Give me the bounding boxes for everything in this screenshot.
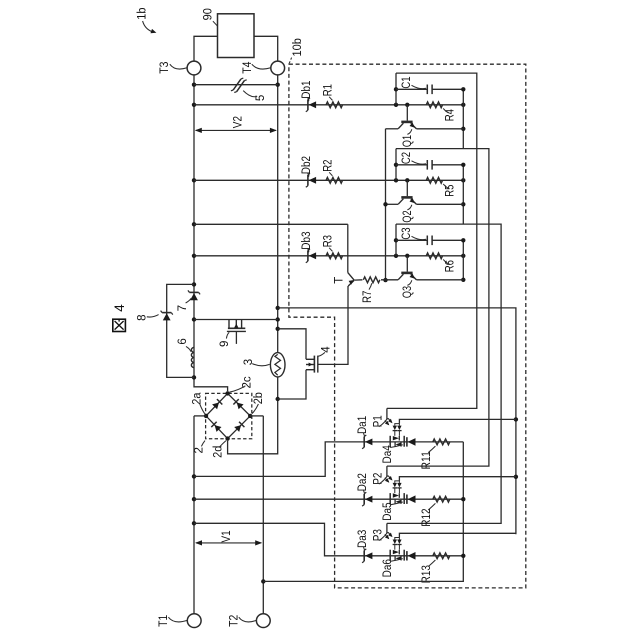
stage 2 wire dots [394, 178, 398, 182]
svg-text:Db3: Db3 [301, 231, 313, 249]
bridge diode 2a-top [212, 403, 219, 410]
wire bridge right corner [250, 415, 263, 417]
emitter wire Q1 [416, 128, 463, 130]
svg-text:Da1: Da1 [357, 416, 369, 434]
svg-text:C3: C3 [401, 227, 413, 239]
P2 return wire [399, 477, 516, 481]
collector rail [385, 129, 387, 280]
capacitor C1 [396, 88, 427, 90]
inductor 6 [191, 347, 194, 367]
node E2 vertical [462, 165, 464, 224]
svg-text:Da6: Da6 [382, 559, 394, 577]
terminal T3 [187, 61, 201, 75]
stage 2 wire [194, 179, 463, 181]
svg-text:P1: P1 [372, 415, 384, 427]
svg-text:T1: T1 [158, 615, 170, 627]
svg-text:R2: R2 [323, 160, 335, 172]
svg-text:2d: 2d [212, 446, 224, 458]
resistor R13 [433, 553, 450, 559]
svg-text:R12: R12 [421, 508, 433, 526]
svg-text:10b: 10b [292, 38, 304, 56]
left rail lower dots [192, 474, 196, 478]
zener D7 on rail [189, 291, 198, 293]
resistor R5 [426, 177, 442, 183]
row 3 wire [194, 523, 463, 556]
P2 light arrows [385, 478, 389, 482]
svg-text:T3: T3 [159, 61, 171, 73]
capacitor C3 [396, 239, 427, 241]
left rail lower [193, 416, 195, 614]
svg-text:P3: P3 [372, 529, 384, 541]
T4 rail junction dots [276, 83, 280, 87]
wire sense line [194, 223, 348, 225]
zener Da1 [363, 437, 365, 448]
svg-text:90: 90 [203, 8, 215, 20]
svg-text:Db2: Db2 [301, 156, 313, 174]
left rail junction dots [192, 83, 196, 87]
P3 return wire [399, 533, 516, 537]
arrow for 1b [143, 21, 153, 32]
stage 3 wire dots [394, 254, 398, 258]
P3 gate drop [386, 523, 388, 533]
svg-text:1b: 1b [137, 8, 149, 20]
PTC 3 [270, 353, 285, 377]
V2 dimension arrow [196, 129, 276, 131]
resistor R7 [363, 277, 380, 283]
FET9 wire [194, 319, 278, 321]
svg-text:Da3: Da3 [357, 530, 369, 548]
T4 rail down to bridge bottom [228, 75, 278, 454]
svg-text:R13: R13 [421, 565, 433, 583]
resistor R3 [326, 253, 343, 259]
riser from T4 wire [278, 308, 516, 534]
svg-text:4: 4 [112, 304, 127, 312]
svg-text:V1: V1 [221, 530, 233, 542]
T2 rail [262, 416, 264, 614]
device T [347, 224, 349, 272]
svg-text:R4: R4 [445, 109, 457, 122]
resistor R4 [426, 102, 442, 108]
charger box 90 [218, 14, 255, 58]
zener Db2 [307, 175, 309, 186]
diode Da5 [406, 495, 408, 504]
V1 dimension arrow [196, 542, 261, 544]
bridge corner dots [225, 391, 229, 395]
terminal T1 [187, 614, 201, 628]
svg-text:Db1: Db1 [301, 80, 313, 98]
stage 3 wire [194, 255, 463, 257]
zener Db3 [307, 250, 309, 261]
transistor Q3 [406, 256, 408, 272]
svg-text:C1: C1 [401, 76, 413, 88]
svg-text:C2: C2 [401, 152, 413, 164]
resistor R6 [426, 253, 442, 259]
svg-text:R7: R7 [362, 291, 374, 303]
transistor Q2 [406, 180, 408, 196]
svg-text:Q3: Q3 [402, 286, 414, 298]
FET 9 [228, 320, 230, 329]
stage 1 wire [194, 104, 463, 106]
wire bridge left corner [194, 415, 206, 417]
svg-text:T2: T2 [228, 615, 240, 627]
FET4 gate wire [318, 286, 348, 364]
riser dots [514, 417, 518, 421]
P3 light arrows [385, 534, 389, 538]
node B3 cell-top wire [387, 224, 501, 523]
opto-coupler P2 [389, 493, 391, 504]
resistor R12 [433, 496, 450, 502]
collector wire Q1 [386, 128, 399, 130]
bridge diode bottom-right [234, 425, 241, 432]
figure label ZU4 [113, 319, 126, 331]
svg-text:P2: P2 [372, 473, 384, 485]
opto-coupler P1 [389, 436, 391, 447]
P1 gate drop [386, 408, 388, 419]
row 1 wire [194, 442, 463, 477]
wire with element 5 [194, 84, 278, 86]
resistor R1 [326, 102, 343, 108]
cell 3 left wire [395, 224, 397, 256]
bridge diode top-right [237, 403, 244, 410]
svg-text:R1: R1 [323, 84, 335, 96]
transistor Q1 [406, 105, 408, 121]
bridge diamond [206, 393, 250, 438]
svg-text:2a: 2a [191, 392, 203, 405]
left rail T3 to bridge top [194, 75, 228, 391]
branch with zener 8 [167, 284, 194, 377]
wire box to T3 [194, 36, 218, 61]
diode Da6 [406, 551, 408, 560]
zener Da3 [363, 550, 365, 561]
svg-text:R11: R11 [421, 451, 433, 469]
P1 light arrows [385, 421, 389, 425]
collector wire Q2 [386, 203, 399, 205]
stage 1 wire dots [394, 103, 398, 107]
zener Db1 [307, 99, 309, 110]
svg-text:Q1: Q1 [402, 135, 414, 147]
zener D8 [162, 312, 171, 314]
P2 gate drop [386, 466, 388, 477]
node B2 cell-top wire [387, 149, 489, 467]
node E3 vertical [462, 240, 464, 279]
emitter wire Q2 [416, 203, 463, 205]
terminal T4 [271, 61, 285, 75]
capacitor C2 [396, 164, 427, 166]
resistor R11 [433, 439, 450, 445]
svg-text:2: 2 [194, 447, 206, 453]
svg-text:Da2: Da2 [357, 473, 369, 491]
node B1 cell-top wire [387, 73, 477, 408]
zener Da2 [363, 494, 365, 505]
svg-text:9: 9 [219, 341, 231, 347]
svg-text:Da5: Da5 [382, 502, 394, 520]
wire box to T4 [254, 36, 278, 61]
surge element 5 [233, 79, 244, 92]
emitter wire Q3 [416, 279, 463, 281]
boundary box 10b dashed [289, 64, 526, 588]
right return dots [461, 497, 465, 501]
node E1 vertical [462, 89, 464, 148]
svg-text:T: T [334, 277, 346, 284]
opto-coupler P3 [389, 550, 391, 561]
T2 rail dot [261, 579, 265, 583]
P1 return wire [399, 419, 516, 423]
svg-text:5: 5 [255, 95, 267, 101]
svg-text:8: 8 [137, 314, 149, 320]
FET4 branch [278, 329, 306, 360]
svg-text:Q2: Q2 [402, 210, 414, 222]
resistor R2 [326, 177, 343, 183]
diode Da4 [406, 437, 408, 446]
collector wire Q3 [381, 279, 398, 281]
svg-text:4: 4 [321, 346, 333, 353]
cell 1 left wire [395, 73, 397, 105]
cell 2 left wire [395, 149, 397, 181]
FET 4 [306, 358, 314, 360]
row 2 wire [194, 498, 463, 500]
terminal T2 [256, 614, 270, 628]
svg-text:7: 7 [177, 305, 189, 311]
right return vertical [263, 442, 463, 582]
svg-text:2b: 2b [253, 392, 265, 404]
bridge diode bottom-left [215, 425, 222, 432]
svg-text:R3: R3 [323, 235, 335, 247]
svg-text:6: 6 [177, 338, 189, 344]
svg-text:T4: T4 [242, 61, 254, 74]
bridge dashed box [206, 393, 252, 438]
svg-text:V2: V2 [233, 116, 245, 128]
